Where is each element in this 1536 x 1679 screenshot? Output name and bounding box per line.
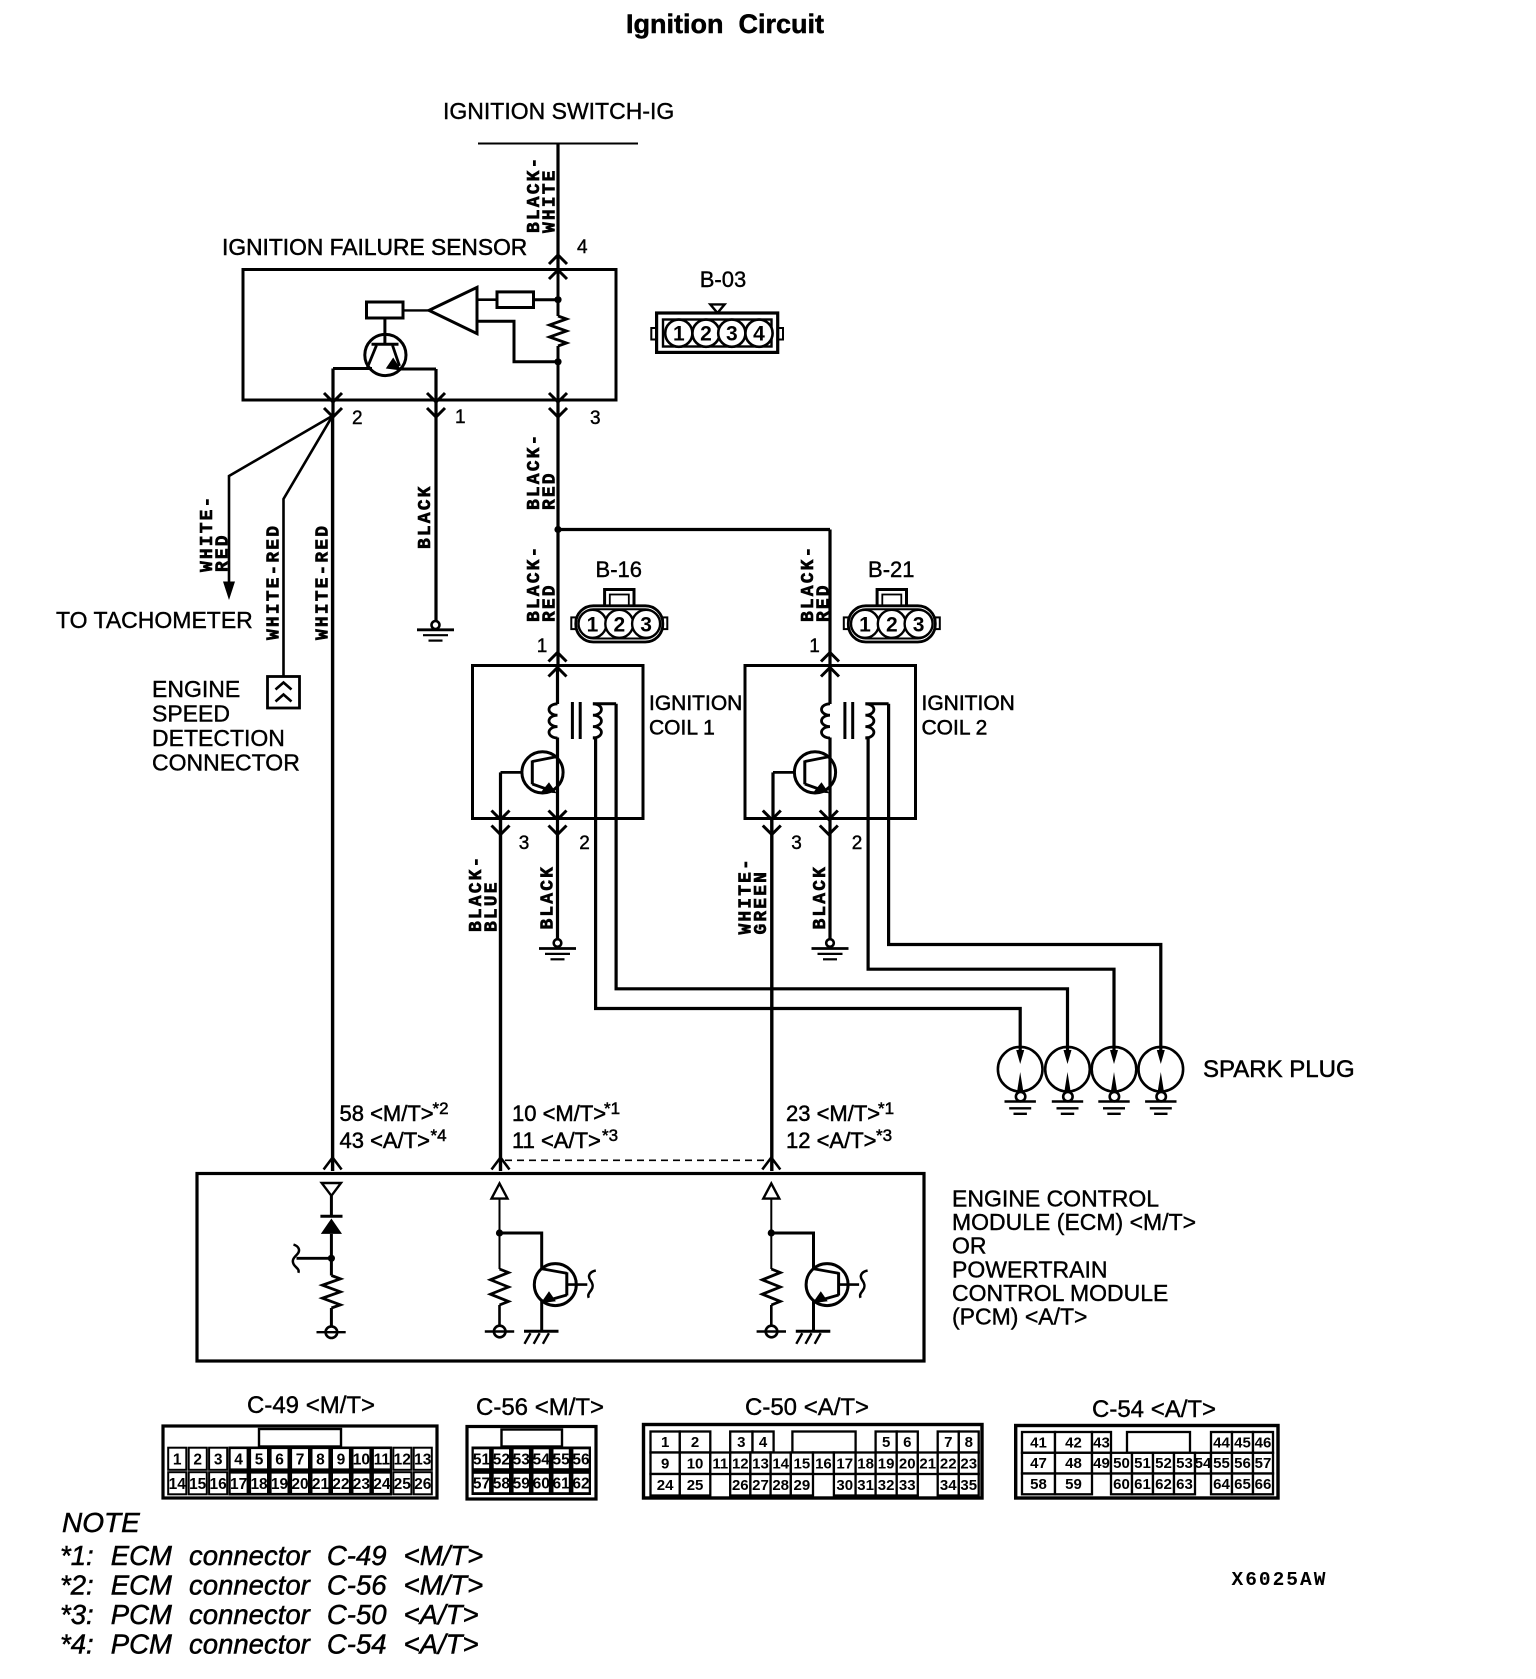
wire <box>330 1234 333 1276</box>
pickup squiggle (right) <box>860 1271 868 1298</box>
svg-text:54: 54 <box>533 1452 551 1469</box>
connector C-54 pinout <box>1016 1426 1278 1499</box>
svg-text:3: 3 <box>214 1452 223 1469</box>
svg-text:5: 5 <box>255 1452 264 1469</box>
pin 1 connector arrows <box>427 393 445 402</box>
wire junction to transistor <box>771 1233 813 1269</box>
Q2 emitter arrowhead <box>541 782 556 793</box>
svg-text:OR: OR <box>952 1233 987 1259</box>
wire BLACK-WHITE from ignition switch to sensor pin 4 <box>556 144 559 270</box>
svg-text:44: 44 <box>1213 1434 1230 1451</box>
svg-text:B-03: B-03 <box>700 267 746 292</box>
resistor (pull-up) inside sensor <box>550 316 567 346</box>
svg-text:21: 21 <box>312 1476 330 1493</box>
coil 2 primary winding <box>822 704 831 738</box>
svg-text:7: 7 <box>296 1452 305 1469</box>
svg-text:2: 2 <box>613 613 625 636</box>
ignition coil 1 box <box>473 666 644 819</box>
svg-text:49: 49 <box>1093 1455 1110 1472</box>
svg-text:3: 3 <box>640 613 652 636</box>
transistor (coil 2 driver) <box>806 1264 848 1306</box>
svg-text:11: 11 <box>712 1456 728 1473</box>
svg-text:2: 2 <box>852 833 863 854</box>
svg-text:58: 58 <box>1030 1476 1047 1493</box>
svg-text:BLACK: BLACK <box>539 865 559 930</box>
connector B-21 body <box>848 606 935 642</box>
svg-text:B-16: B-16 <box>596 557 642 582</box>
transistor (coil 1 driver) <box>534 1264 576 1306</box>
svg-text:WHITE: WHITE <box>541 168 561 233</box>
svg-text:1: 1 <box>859 613 871 636</box>
transistor Q2 (power transistor) <box>522 752 563 793</box>
svg-text:12 <A/T>: 12 <A/T> <box>786 1128 877 1153</box>
svg-text:20: 20 <box>899 1456 916 1473</box>
resistor (coil 2 driver) <box>762 1269 780 1305</box>
Q3 collector diagonal <box>805 757 830 762</box>
svg-text:BLACK: BLACK <box>811 865 831 930</box>
junction node BLACK-RED branch <box>554 526 561 533</box>
svg-text:*4: PCM connector C-54 <A/T>: *4: PCM connector C-54 <A/T> <box>60 1629 479 1660</box>
ignition failure sensor box <box>243 270 616 401</box>
svg-text:23 <M/T>: 23 <M/T> <box>786 1101 880 1126</box>
svg-text:43: 43 <box>1093 1434 1110 1451</box>
svg-text:RED: RED <box>214 533 234 572</box>
coil 2 secondary top lead <box>865 702 888 705</box>
svg-text:1: 1 <box>455 407 466 428</box>
svg-text:IGNITION: IGNITION <box>922 692 1015 715</box>
svg-text:WHITE-RED: WHITE-RED <box>265 524 285 640</box>
junction node <box>328 1255 335 1262</box>
svg-text:8: 8 <box>965 1434 973 1451</box>
svg-text:21: 21 <box>919 1456 936 1473</box>
wire BLACK coil2 pin2 to ground <box>828 819 831 940</box>
wire squiggle to junction <box>297 1257 332 1260</box>
Q1 collector diagonal <box>367 345 377 368</box>
wire sensor pin 1 <box>434 369 437 621</box>
svg-text:18: 18 <box>857 1456 874 1473</box>
svg-text:3: 3 <box>913 613 925 636</box>
svg-text:1: 1 <box>661 1434 669 1451</box>
svg-text:POWERTRAIN: POWERTRAIN <box>952 1256 1107 1282</box>
svg-text:17: 17 <box>230 1476 247 1493</box>
svg-text:42: 42 <box>1065 1434 1082 1451</box>
svg-text:19: 19 <box>878 1456 895 1473</box>
svg-text:25: 25 <box>687 1477 704 1494</box>
Q1 emitter wire to pin 1 <box>398 368 436 371</box>
Q1 base bar <box>372 343 399 346</box>
pickup squiggle (left) <box>293 1245 299 1273</box>
coil 2 secondary bottom lead <box>865 736 868 739</box>
svg-text:1: 1 <box>809 636 820 657</box>
wire branch to engine speed detection connector <box>284 416 333 677</box>
svg-text:58: 58 <box>493 1476 511 1493</box>
svg-text:*3: *3 <box>602 1126 618 1145</box>
svg-text:16: 16 <box>815 1456 832 1473</box>
connector B-03 body <box>657 313 778 352</box>
tachometer arrowhead <box>223 582 235 601</box>
wire <box>499 1199 501 1269</box>
svg-text:10: 10 <box>353 1452 370 1469</box>
svg-text:8: 8 <box>316 1452 325 1469</box>
spark plug 4 terminal <box>1157 1092 1166 1101</box>
coil 1 primary to transistor wire <box>556 738 559 819</box>
connector B-03 side tabs <box>651 328 656 340</box>
svg-text:*2: ECM connector C-56 <M/T>: *2: ECM connector C-56 <M/T> <box>60 1570 483 1601</box>
svg-text:65: 65 <box>1234 1476 1251 1493</box>
terminal circle <box>326 1326 338 1338</box>
svg-text:62: 62 <box>1155 1476 1172 1493</box>
svg-text:10 <M/T>: 10 <M/T> <box>512 1101 606 1126</box>
svg-text:26: 26 <box>732 1477 749 1494</box>
coil 2 pin 1 arrows and label <box>821 653 839 662</box>
wire pin4 to pin3 through resistor <box>557 270 560 317</box>
junction node top <box>554 296 561 303</box>
svg-text:14: 14 <box>772 1456 789 1473</box>
sensor internal block (rect) <box>367 302 404 318</box>
svg-text:60: 60 <box>1113 1476 1130 1493</box>
chassis ground (hatched) <box>796 1330 831 1333</box>
coil 2 secondary winding <box>865 704 874 738</box>
ECM input triangle (coil 2 driver) <box>763 1183 779 1198</box>
svg-text:2: 2 <box>579 833 590 854</box>
pin 4 connector arrows <box>549 255 567 264</box>
spark plug 2 terminal <box>1063 1092 1072 1101</box>
emitter diagonal <box>544 1295 567 1302</box>
base lead to squiggle <box>839 1283 860 1286</box>
svg-text:*1: ECM connector C-49 <M/T>: *1: ECM connector C-49 <M/T> <box>60 1540 483 1571</box>
svg-text:CONTROL MODULE: CONTROL MODULE <box>952 1280 1168 1306</box>
coil 1 core <box>571 702 574 739</box>
wire <box>330 1196 333 1216</box>
svg-text:28: 28 <box>772 1477 789 1494</box>
svg-text:(PCM) <A/T>: (PCM) <A/T> <box>952 1304 1087 1330</box>
svg-text:RED: RED <box>541 471 561 510</box>
svg-text:13: 13 <box>414 1452 432 1469</box>
coil pin 3 arrows <box>763 811 781 820</box>
svg-text:*3: PCM connector C-50 <A/T>: *3: PCM connector C-50 <A/T> <box>60 1599 479 1630</box>
ground (coil 2) <box>826 939 834 947</box>
wire branch to tachometer <box>229 416 333 590</box>
svg-text:IGNITION: IGNITION <box>649 692 742 715</box>
Q3 base bar <box>803 761 806 785</box>
svg-text:*4: *4 <box>431 1126 447 1145</box>
connector B-21 top tab <box>877 590 906 607</box>
ECM entry arrow (23/12) <box>762 1158 780 1170</box>
wire WHITE-RED sensor pin2 to ECM <box>331 416 334 1171</box>
svg-text:COIL 1: COIL 1 <box>649 717 715 740</box>
svg-text:C-56 <M/T>: C-56 <M/T> <box>476 1394 604 1421</box>
ECM entry arrow (10/11) <box>492 1158 510 1170</box>
svg-text:31: 31 <box>857 1477 874 1494</box>
Q1 collector wire to pin 2 <box>333 367 372 370</box>
junction node <box>768 1229 775 1236</box>
engine speed detection connector symbol <box>268 677 300 709</box>
svg-text:13: 13 <box>752 1456 769 1473</box>
svg-text:1: 1 <box>673 323 685 346</box>
svg-text:MODULE (ECM) <M/T>: MODULE (ECM) <M/T> <box>952 1209 1196 1235</box>
svg-text:57: 57 <box>1255 1455 1272 1472</box>
spark plug 3 terminal <box>1110 1092 1119 1101</box>
svg-text:Ignition Circuit: Ignition Circuit <box>626 9 824 39</box>
svg-text:TO TACHOMETER: TO TACHOMETER <box>56 607 253 633</box>
svg-text:6: 6 <box>275 1452 284 1469</box>
svg-text:53: 53 <box>513 1452 531 1469</box>
wire op-amp input top <box>477 298 497 301</box>
svg-text:2: 2 <box>700 323 712 346</box>
svg-text:62: 62 <box>572 1476 589 1493</box>
svg-text:3: 3 <box>519 833 530 854</box>
pin 3 connector arrows <box>549 393 567 402</box>
ignition switch bus line <box>478 143 638 145</box>
base bar <box>837 1272 840 1295</box>
svg-text:16: 16 <box>210 1476 228 1493</box>
svg-text:32: 32 <box>878 1477 895 1494</box>
svg-text:46: 46 <box>1255 1434 1272 1451</box>
svg-text:30: 30 <box>836 1477 853 1494</box>
Q1 emitter diagonal with arrow <box>393 345 400 366</box>
svg-text:RED: RED <box>815 583 835 622</box>
svg-text:58 <M/T>: 58 <M/T> <box>340 1101 434 1126</box>
svg-text:55: 55 <box>1213 1455 1230 1472</box>
coil 2 base wire down (pin 3) <box>771 772 774 818</box>
svg-text:6: 6 <box>903 1434 911 1451</box>
svg-text:26: 26 <box>414 1476 432 1493</box>
wire block to op-amp <box>403 309 429 311</box>
coil pin 3 arrows <box>492 811 510 820</box>
svg-text:2: 2 <box>691 1434 699 1451</box>
svg-text:20: 20 <box>291 1476 308 1493</box>
svg-text:55: 55 <box>553 1452 571 1469</box>
svg-text:61: 61 <box>1134 1476 1151 1493</box>
svg-text:60: 60 <box>533 1476 550 1493</box>
wire input resistor to node <box>534 298 560 301</box>
svg-text:43 <A/T>: 43 <A/T> <box>340 1128 431 1153</box>
connector B-16 body <box>576 606 663 642</box>
svg-text:COIL 2: COIL 2 <box>922 717 988 740</box>
svg-text:C-50 <A/T>: C-50 <A/T> <box>745 1394 869 1421</box>
svg-text:54: 54 <box>1195 1455 1212 1472</box>
svg-text:23: 23 <box>353 1476 371 1493</box>
svg-text:BLACK: BLACK <box>416 484 436 549</box>
svg-text:23: 23 <box>960 1456 977 1473</box>
Q2 base wire <box>501 771 522 774</box>
svg-text:56: 56 <box>1234 1455 1251 1472</box>
svg-text:11: 11 <box>374 1452 391 1469</box>
coil 1 pin 1 arrows and label <box>549 653 567 662</box>
connector B-21 pin circles 1-3 <box>851 610 879 638</box>
svg-text:19: 19 <box>271 1476 289 1493</box>
transistor Q1 in sensor <box>365 334 406 375</box>
emitter wire to ground <box>812 1301 815 1332</box>
svg-text:9: 9 <box>661 1456 669 1473</box>
svg-text:22: 22 <box>940 1456 957 1473</box>
svg-text:24: 24 <box>657 1477 674 1494</box>
Q1 emitter arrowhead <box>386 358 402 371</box>
svg-text:NOTE: NOTE <box>62 1507 140 1538</box>
svg-text:2: 2 <box>886 613 898 636</box>
svg-text:C-49 <M/T>: C-49 <M/T> <box>247 1392 375 1419</box>
svg-text:4: 4 <box>759 1434 768 1451</box>
svg-text:WHITE-RED: WHITE-RED <box>314 524 334 640</box>
svg-text:4: 4 <box>753 323 765 346</box>
svg-text:RED: RED <box>541 583 561 622</box>
svg-text:BLUE: BLUE <box>483 880 503 932</box>
svg-text:64: 64 <box>1213 1476 1230 1493</box>
svg-text:51: 51 <box>1134 1455 1151 1472</box>
svg-text:2: 2 <box>193 1452 202 1469</box>
wire BLACK-RED sensor pin 3 down <box>556 400 559 666</box>
ECM/PCM box <box>197 1174 924 1362</box>
connector B-03 pin circles 1-4 <box>665 320 692 347</box>
coil 2 core <box>843 702 846 739</box>
diode D1 (cathode bar) <box>320 1215 342 1218</box>
svg-text:1: 1 <box>173 1452 182 1469</box>
connector B-16 side tabs <box>571 617 576 629</box>
pickup squiggle (right) <box>588 1271 596 1298</box>
diode D1 (triangle) <box>321 1219 342 1234</box>
svg-text:B-21: B-21 <box>868 557 914 582</box>
svg-text:IGNITION SWITCH-IG: IGNITION SWITCH-IG <box>443 98 674 124</box>
chassis ground (hatched) <box>524 1330 559 1333</box>
ignition coil 2 box <box>745 666 916 819</box>
svg-text:GREEN: GREEN <box>752 870 772 935</box>
svg-text:ENGINE CONTROL: ENGINE CONTROL <box>952 1186 1159 1212</box>
connector C-56 pinout <box>467 1427 596 1500</box>
Q2 collector diagonal <box>532 757 557 762</box>
svg-text:56: 56 <box>572 1452 590 1469</box>
svg-text:4: 4 <box>234 1452 243 1469</box>
HT lead coil2 secondary top to spark plug 4 <box>889 704 1161 1050</box>
coil pin 2 arrows <box>820 811 838 820</box>
svg-text:X6025AW: X6025AW <box>1232 1569 1328 1591</box>
svg-text:24: 24 <box>373 1476 391 1493</box>
svg-text:52: 52 <box>493 1452 510 1469</box>
wire BLACK-BLUE coil1 pin3 to ECM <box>499 819 502 1172</box>
wire BLACK coil1 pin2 to ground <box>556 819 559 940</box>
svg-text:41: 41 <box>1030 1434 1047 1451</box>
spark plug 3 <box>1092 1047 1137 1092</box>
svg-text:DETECTION: DETECTION <box>152 725 285 751</box>
svg-text:7: 7 <box>944 1434 952 1451</box>
svg-text:ENGINE: ENGINE <box>152 676 240 702</box>
svg-text:52: 52 <box>1155 1455 1172 1472</box>
collector diagonal <box>542 1269 567 1274</box>
base bar <box>565 1272 568 1295</box>
transistor Q3 (power transistor) <box>794 752 835 793</box>
svg-text:29: 29 <box>794 1477 811 1494</box>
svg-text:22: 22 <box>332 1476 349 1493</box>
wire <box>498 1305 501 1326</box>
emitter arrowhead <box>541 1291 556 1303</box>
svg-text:25: 25 <box>394 1476 412 1493</box>
connector C-50 pinout <box>644 1425 983 1499</box>
svg-text:*3: *3 <box>876 1126 892 1145</box>
coil 1 secondary top lead <box>593 702 616 705</box>
base lead to squiggle <box>567 1283 588 1286</box>
wire junction to transistor <box>500 1233 542 1269</box>
input resistor (series) <box>497 292 534 308</box>
svg-text:5: 5 <box>882 1434 890 1451</box>
collector diagonal <box>814 1269 839 1274</box>
svg-text:12: 12 <box>394 1452 411 1469</box>
svg-text:61: 61 <box>553 1476 571 1493</box>
Q2 emitter diagonal <box>532 784 553 792</box>
svg-text:59: 59 <box>1065 1476 1082 1493</box>
connector B-16 pin circles 1-3 <box>579 610 607 638</box>
ECM input triangle (coil 1 driver) <box>492 1183 508 1198</box>
svg-text:SPEED: SPEED <box>152 701 230 727</box>
coil pin 2 arrows <box>549 811 567 820</box>
svg-text:4: 4 <box>577 237 588 258</box>
emitter wire to ground <box>540 1301 543 1332</box>
op-amp comparator inside sensor <box>429 287 477 333</box>
connector B-21 side tabs <box>844 617 849 629</box>
wire <box>330 1308 333 1327</box>
ground (spark plug 4) <box>1145 1100 1176 1103</box>
HT lead coil1 secondary bottom to spark plug 1 <box>596 738 1021 1050</box>
ground (spark plug 2) <box>1052 1100 1083 1103</box>
svg-text:*1: *1 <box>878 1099 894 1118</box>
svg-text:10: 10 <box>687 1456 704 1473</box>
svg-text:66: 66 <box>1255 1476 1272 1493</box>
svg-text:35: 35 <box>960 1477 977 1494</box>
svg-text:59: 59 <box>513 1476 531 1493</box>
coil 2 primary winding wire <box>828 666 831 705</box>
svg-text:14: 14 <box>169 1476 187 1493</box>
svg-text:15: 15 <box>794 1456 811 1473</box>
svg-text:*2: *2 <box>433 1099 449 1118</box>
svg-text:57: 57 <box>473 1476 490 1493</box>
svg-text:3: 3 <box>791 833 802 854</box>
HT lead coil1 secondary top to spark plug 2 <box>616 704 1067 1050</box>
connector B-16 top tab <box>605 590 634 607</box>
dashed link line between ECM inputs <box>505 1159 768 1161</box>
svg-text:3: 3 <box>590 408 601 429</box>
Q2 base bar <box>531 761 534 785</box>
coil 1 secondary bottom lead <box>593 736 596 739</box>
terminal circle <box>494 1326 506 1338</box>
svg-text:2: 2 <box>352 408 363 429</box>
svg-text:IGNITION FAILURE SENSOR: IGNITION FAILURE SENSOR <box>222 234 527 260</box>
svg-text:33: 33 <box>899 1477 916 1494</box>
HT lead coil2 secondary bottom to spark plug 3 <box>868 738 1114 1050</box>
ground (spark plug 1) <box>1005 1100 1036 1103</box>
ground (sensor pin 1) <box>432 621 440 629</box>
spark plug 1 terminal <box>1016 1092 1025 1101</box>
svg-text:45: 45 <box>1234 1434 1251 1451</box>
emitter arrowhead <box>813 1291 828 1303</box>
coil 1 base wire down (pin 3) <box>499 772 502 818</box>
junction node <box>496 1229 503 1236</box>
Q3 emitter arrowhead <box>814 782 829 793</box>
ground (spark plug 3) <box>1098 1100 1129 1103</box>
spark plug 4 <box>1139 1047 1184 1092</box>
Q3 base wire <box>773 771 794 774</box>
pin 2 connector arrows <box>324 393 342 402</box>
svg-text:18: 18 <box>250 1476 268 1493</box>
ECM entry arrow (58/43) <box>324 1158 342 1170</box>
svg-text:9: 9 <box>337 1452 346 1469</box>
coil 1 primary winding <box>549 704 558 738</box>
svg-text:17: 17 <box>836 1456 853 1473</box>
svg-text:1: 1 <box>587 613 599 636</box>
svg-text:C-54 <A/T>: C-54 <A/T> <box>1092 1396 1216 1423</box>
emitter diagonal <box>816 1295 839 1302</box>
svg-text:1: 1 <box>537 636 548 657</box>
svg-text:15: 15 <box>189 1476 207 1493</box>
svg-text:48: 48 <box>1065 1455 1082 1472</box>
svg-text:SPARK PLUG: SPARK PLUG <box>1203 1056 1355 1083</box>
